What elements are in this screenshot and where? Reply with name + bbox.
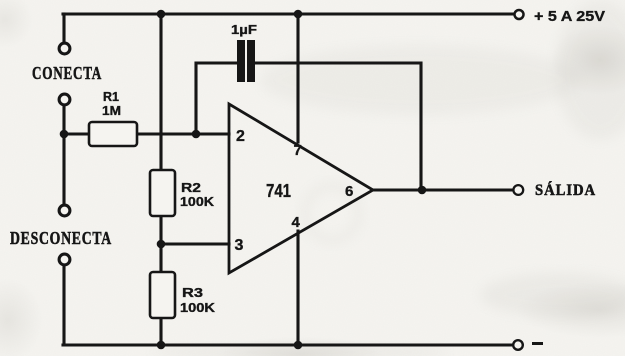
faint scanner shading right edge <box>555 0 625 140</box>
svg-text:2: 2 <box>236 128 245 145</box>
terminal +V <box>515 10 524 19</box>
terminal minus <box>513 340 523 350</box>
faint smudge bottom center <box>150 344 450 356</box>
wire CONECTA bottom terminal to R1 node <box>62 105 65 134</box>
terminal CONECTA bottom <box>59 94 70 105</box>
wire output pin 6 to SALIDA terminal <box>373 188 513 191</box>
svg-text:DESCONECTA: DESCONECTA <box>10 228 112 248</box>
op-amp U1 741 triangle <box>229 104 373 273</box>
wire pin 4 to bottom rail <box>296 231 299 345</box>
faint scanner shading band under top rail <box>260 45 580 115</box>
wire top supply rail <box>63 12 513 15</box>
node junction output / capacitor <box>418 186 427 195</box>
wire capacitor right leg to output node <box>255 63 421 190</box>
svg-text:7: 7 <box>294 142 302 159</box>
wire pin 7 to supply rail <box>296 14 299 142</box>
resistor R1 <box>89 122 137 146</box>
wire R1 to pin 2 <box>137 132 229 135</box>
svg-text:741: 741 <box>266 181 291 201</box>
svg-text:100K: 100K <box>180 300 216 315</box>
wire bottom rail <box>63 343 513 346</box>
svg-text:1µF: 1µF <box>231 22 257 37</box>
terminal DESCONECTA bottom <box>59 254 70 265</box>
wire left column upper (to CONECTA top terminal) <box>62 14 65 43</box>
svg-text:100K: 100K <box>180 194 215 209</box>
resistor R2 <box>150 170 175 216</box>
terminal CONECTA top <box>59 43 70 54</box>
svg-text:R2: R2 <box>181 180 201 195</box>
label minus <box>532 342 543 345</box>
node junction top rail / pin7 line <box>294 10 303 19</box>
node A junction top rail / R2 chain <box>157 10 166 19</box>
node B junction R2/R3 pin3 <box>157 240 166 249</box>
wire DESCONECTA bottom terminal to bottom rail <box>62 265 65 345</box>
svg-text:R3: R3 <box>182 285 203 300</box>
terminal SALIDA <box>513 185 523 195</box>
faint ghost smudge bottom right <box>480 273 625 317</box>
svg-text:4: 4 <box>292 214 301 231</box>
svg-text:+ 5 A 25V: + 5 A 25V <box>534 8 605 25</box>
svg-text:6: 6 <box>345 183 353 200</box>
node junction pin2 / capacitor leg <box>192 130 201 139</box>
wire R1 node to R1 <box>64 132 89 135</box>
svg-text:R1: R1 <box>103 89 119 104</box>
terminal DESCONECTA top <box>59 205 70 216</box>
wire R2 to node B <box>159 216 162 272</box>
wire capacitor left leg <box>196 63 237 134</box>
wire R3 to bottom rail <box>159 318 162 345</box>
node junction R1 left <box>60 130 69 139</box>
resistor R3 <box>150 272 175 318</box>
wire R2 chain top (supply to R2) <box>159 14 162 170</box>
svg-text:CONECTA: CONECTA <box>32 63 102 83</box>
svg-text:SÁLIDA: SÁLIDA <box>535 180 596 199</box>
node junction bottom rail / R3 <box>157 341 166 350</box>
wire node B to pin 3 <box>161 242 229 245</box>
svg-text:1M: 1M <box>102 103 121 118</box>
wire R1 node down to DESCONECTA top terminal <box>62 134 65 205</box>
faint ghost ring artifact near op-amp <box>305 186 359 240</box>
svg-text:3: 3 <box>235 237 244 254</box>
node junction bottom rail / pin4 line <box>294 341 303 350</box>
capacitor C1 plates <box>237 40 255 82</box>
